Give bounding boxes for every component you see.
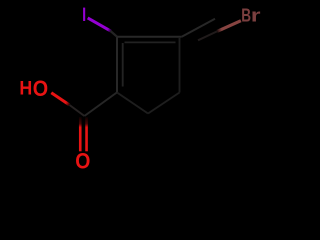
bond C-I (purple half near iodine label) [88, 18, 112, 31]
bond HO-C (red half near hydroxyl label) [51, 93, 69, 105]
ring bond C3-C4 (rising top-right edge) [182, 19, 215, 37]
bond HO-C (dark carbon half) [70, 105, 85, 116]
bond C-Br (dark carbon half) [198, 31, 217, 40]
bond carboxyl C to ring C1 [84, 93, 116, 117]
svg-text:B: B [241, 6, 251, 27]
ring bond C1-C6 (bottom-left V edge) [117, 93, 148, 114]
bond C-Br (brown half near bromine label) [217, 21, 241, 32]
svg-text:O: O [33, 77, 48, 101]
double bond C=O line 1 (left) [79, 117, 82, 151]
hydroxyl label HO [19, 77, 48, 101]
svg-text:r: r [251, 5, 261, 26]
iodine label I [83, 8, 85, 21]
ring bond C2-C3 (top horizontal edge) [117, 36, 182, 38]
double bond C=O line 2 (right) [85, 117, 88, 151]
ring bond C2-C1 (left vertical edge) [116, 37, 118, 93]
bond C-I (dark carbon half) [111, 31, 118, 37]
svg-text:H: H [19, 77, 32, 99]
ring bond C3-C5 (right vertical edge) [179, 38, 181, 93]
ring double bond inner line C2=C3 (below top edge) [125, 41, 176, 43]
ring bond C6-C5 (bottom-right V edge) [148, 93, 180, 114]
ring double bond inner line C1=C2 [122, 43, 124, 87]
bromine label Br [241, 5, 261, 26]
svg-text:O: O [75, 149, 90, 174]
